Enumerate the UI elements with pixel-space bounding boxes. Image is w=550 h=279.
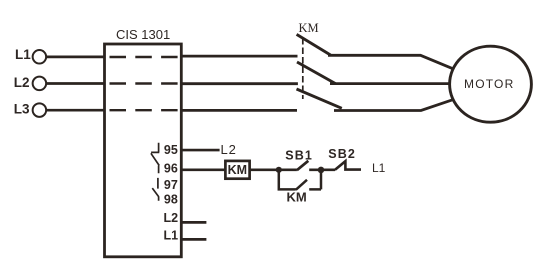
svg-text:L2: L2 (14, 75, 30, 90)
svg-text:L3: L3 (14, 102, 30, 117)
svg-text:KM: KM (287, 190, 307, 205)
svg-text:KM: KM (228, 163, 247, 177)
svg-text:L2: L2 (221, 142, 237, 157)
svg-text:97: 97 (164, 178, 178, 192)
svg-text:CIS 1301: CIS 1301 (116, 27, 170, 42)
svg-text:KM: KM (299, 21, 319, 35)
svg-text:96: 96 (164, 162, 178, 176)
svg-text:L2: L2 (164, 211, 179, 225)
svg-text:L1: L1 (15, 47, 31, 62)
svg-text:98: 98 (164, 193, 178, 207)
svg-text:MOTOR: MOTOR (464, 77, 514, 91)
svg-text:L1: L1 (372, 161, 386, 175)
svg-text:SB1: SB1 (285, 148, 313, 162)
svg-text:95: 95 (164, 143, 178, 157)
svg-text:SB2: SB2 (328, 147, 356, 161)
svg-text:L1: L1 (164, 229, 179, 243)
